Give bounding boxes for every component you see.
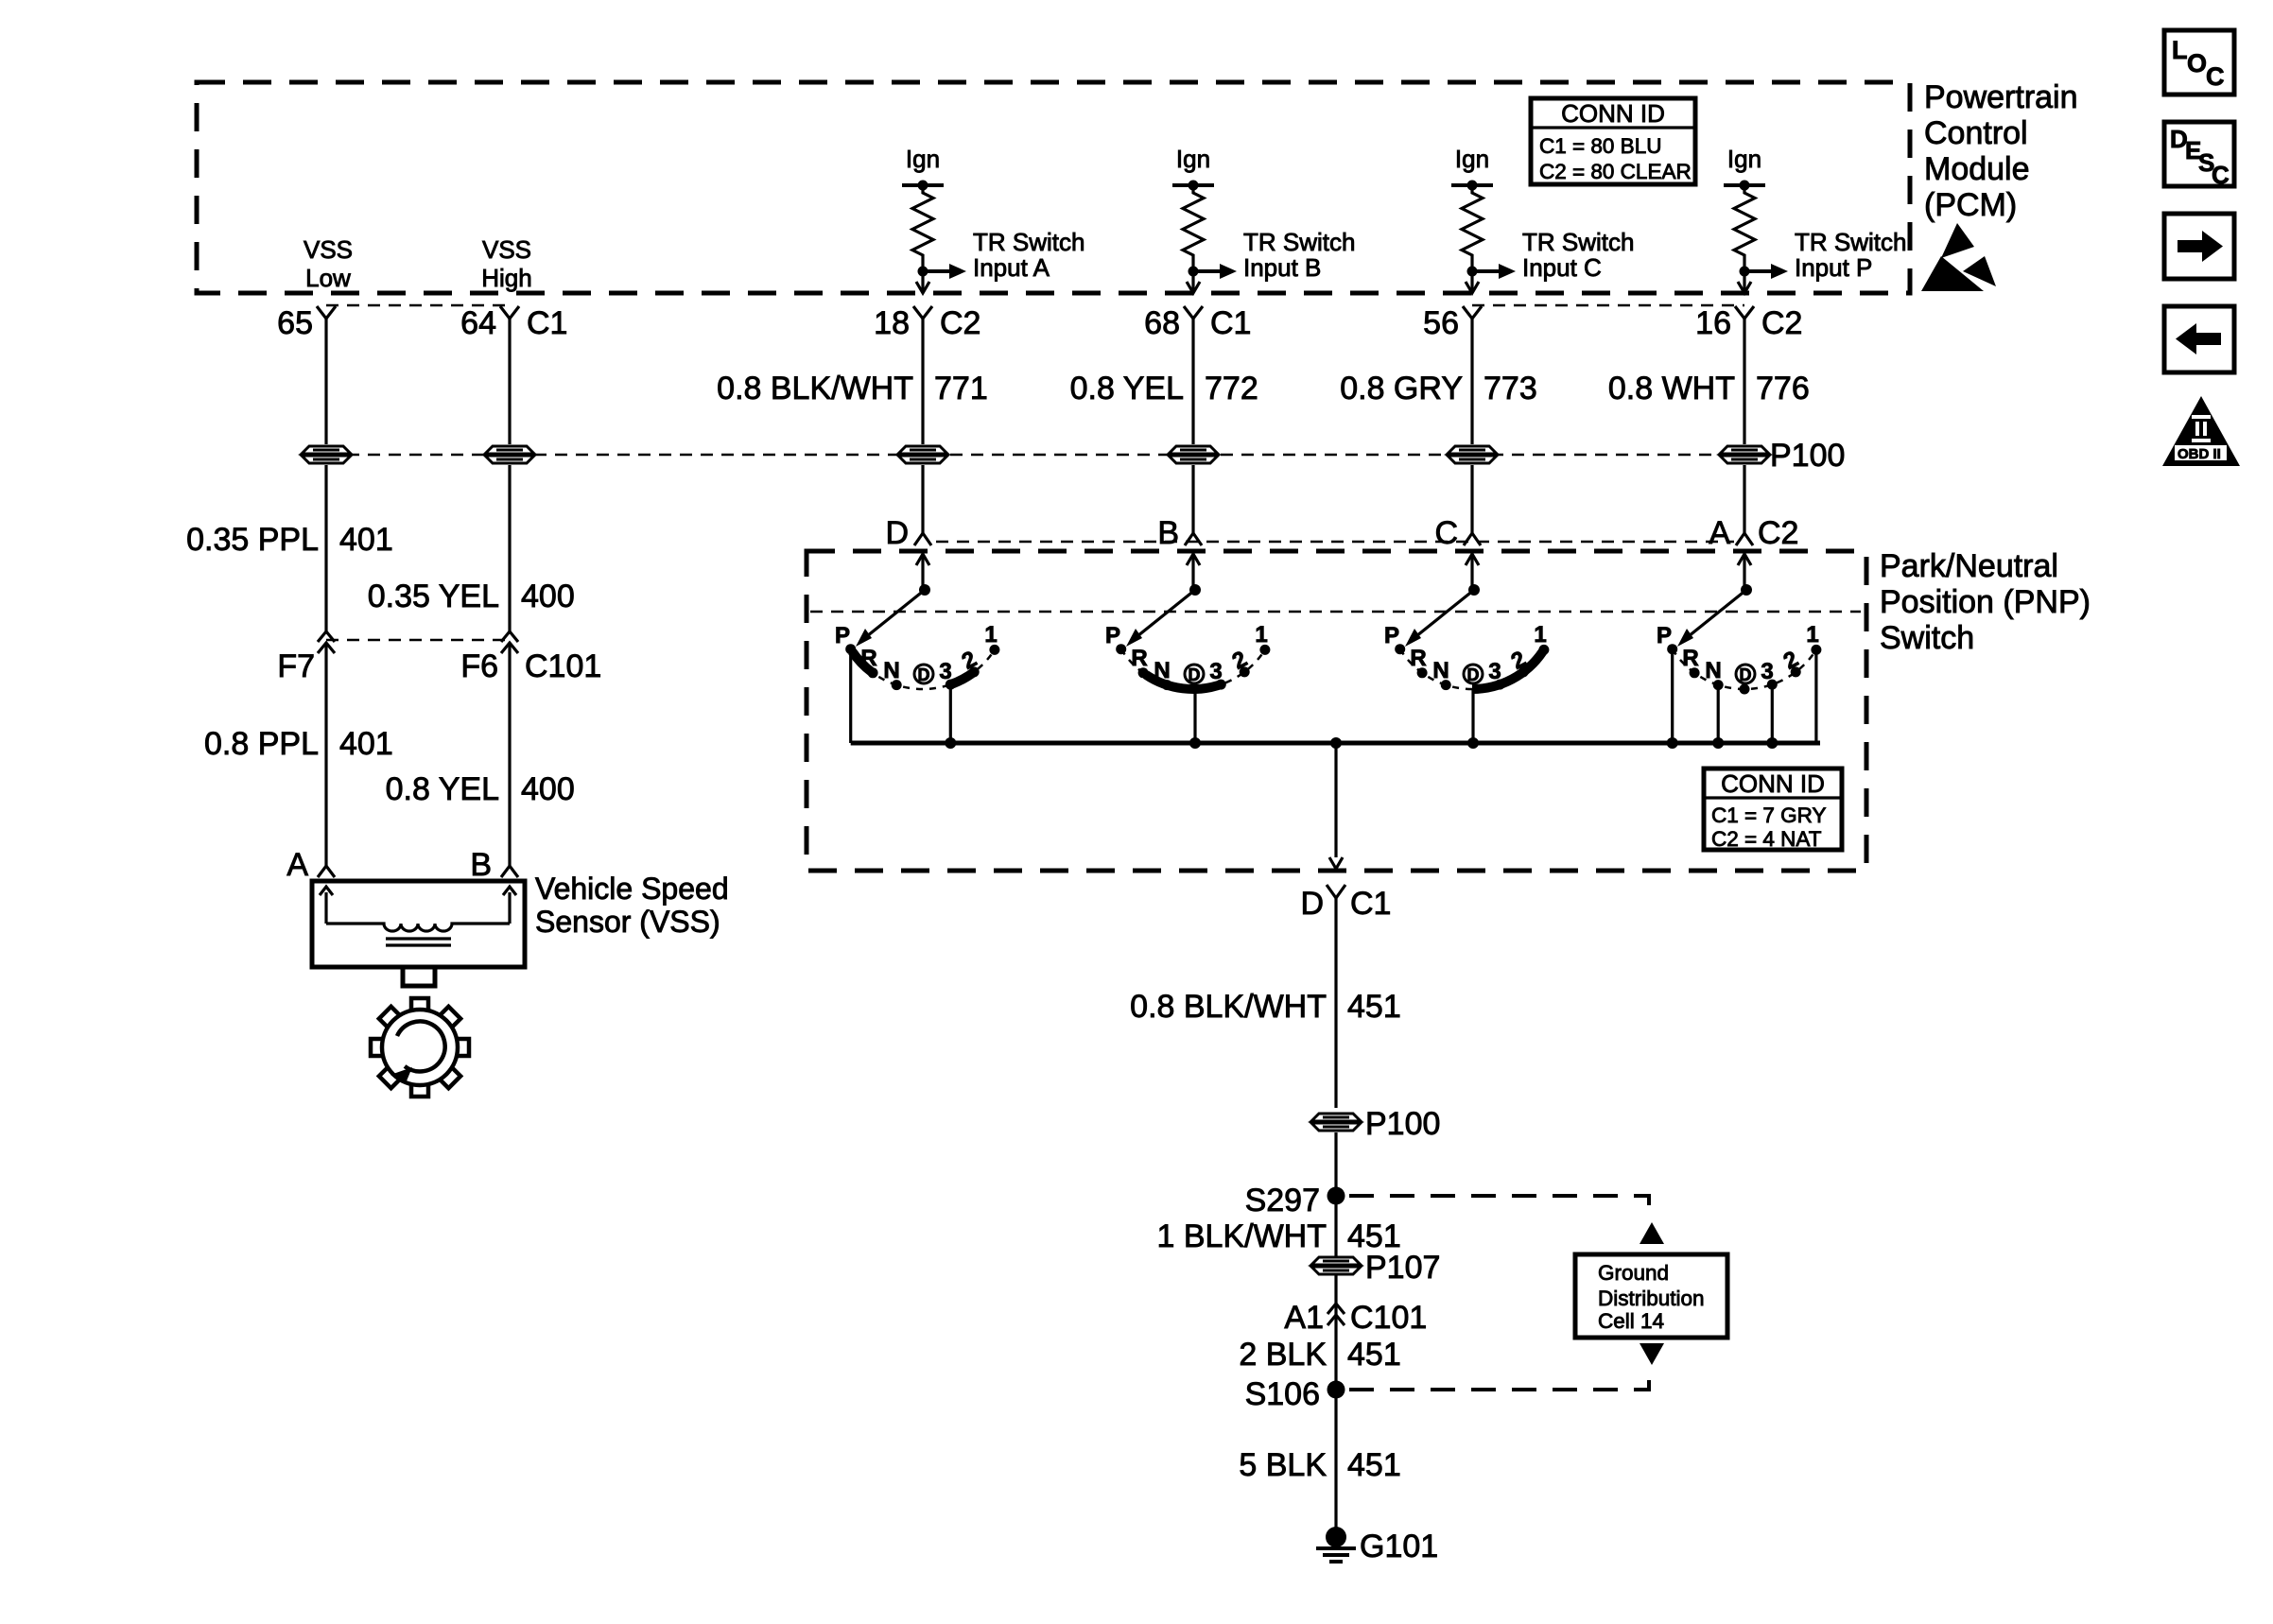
svg-text:1 BLK/WHT: 1 BLK/WHT xyxy=(1157,1218,1327,1254)
svg-text:CONN ID: CONN ID xyxy=(1561,99,1665,128)
connector P100 pass-through (lower) xyxy=(1311,1114,1361,1131)
svg-text:N: N xyxy=(1432,658,1449,683)
svg-text:3: 3 xyxy=(1761,659,1773,684)
wire label 0.8 BLK/WHT 771 xyxy=(717,371,988,406)
switch wafer SW-P position labels xyxy=(1657,622,1819,684)
svg-text:C2 = 80 CLEAR: C2 = 80 CLEAR xyxy=(1539,160,1692,183)
svg-text:F7: F7 xyxy=(277,648,315,684)
switch wafer SW-B position labels xyxy=(1105,622,1268,684)
switch SW-B closed segment R-3 xyxy=(1146,675,1223,689)
svg-text:F6: F6 xyxy=(460,648,498,684)
switch SW-C closed segment D-1 xyxy=(1472,651,1543,689)
VSS internal pickup coil xyxy=(320,887,516,945)
VSS sensor box xyxy=(312,881,525,967)
terminal A1 C101 xyxy=(1284,1300,1427,1336)
svg-text:C2 = 4 NAT: C2 = 4 NAT xyxy=(1711,827,1822,851)
svg-text:0.8 WHT: 0.8 WHT xyxy=(1608,371,1735,406)
svg-text:773: 773 xyxy=(1484,371,1537,406)
node TR Switch Input A tap xyxy=(918,228,1085,282)
svg-text:P: P xyxy=(1657,623,1672,648)
svg-text:S297: S297 xyxy=(1245,1183,1320,1218)
wire xyxy=(508,319,511,444)
wire xyxy=(1334,1132,1337,1537)
node VSS Low label xyxy=(304,235,353,292)
svg-text:C1: C1 xyxy=(1350,886,1391,922)
LOC icon xyxy=(2164,30,2234,95)
svg-text:G101: G101 xyxy=(1360,1529,1438,1564)
terminal B of VSS xyxy=(470,847,518,883)
arrow to Ground Distribution (up) xyxy=(1640,1222,1664,1244)
svg-text:772: 772 xyxy=(1205,371,1258,406)
wire SW-B to bus xyxy=(1189,689,1201,749)
wire xyxy=(1470,465,1473,533)
switch wafer SW-P wiper arm xyxy=(1677,590,1746,647)
forward arrow icon xyxy=(2164,214,2234,279)
wire label 0.35 YEL 400 xyxy=(368,579,575,614)
wire SW-P N contact to bus xyxy=(1712,685,1724,749)
svg-text:0.8 BLK/WHT: 0.8 BLK/WHT xyxy=(717,371,913,406)
switch wafer SW-A D position circle xyxy=(914,665,933,684)
wire label 0.8 PPL 401 xyxy=(204,726,393,762)
svg-text:C1: C1 xyxy=(527,305,567,341)
wire xyxy=(1191,465,1194,533)
wire xyxy=(921,319,924,444)
terminal F6 chevrons xyxy=(501,631,518,653)
wire xyxy=(324,319,327,444)
svg-text:400: 400 xyxy=(521,579,575,614)
wire VSS low upper xyxy=(324,465,327,631)
svg-text:C: C xyxy=(2206,62,2225,91)
svg-text:65: 65 xyxy=(277,305,313,341)
node Ign (column A) xyxy=(902,145,944,191)
svg-text:1: 1 xyxy=(984,622,997,648)
wire resistor to PCM edge (column A) xyxy=(916,271,929,293)
svg-text:C1 = 7 GRY: C1 = 7 GRY xyxy=(1711,803,1827,827)
connector line C2 (pins 56-16) xyxy=(1472,304,1744,307)
svg-text:B: B xyxy=(1157,515,1179,551)
connector P100 pass-through at x=1845 xyxy=(1720,446,1769,463)
svg-text:C1: C1 xyxy=(1210,305,1251,341)
switch wafer SW-B wiper arm xyxy=(1126,590,1195,647)
svg-text:Ign: Ign xyxy=(1176,145,1210,173)
terminal Y pin 65 xyxy=(277,305,336,341)
wire PNP output D xyxy=(1329,743,1343,869)
wire xyxy=(1470,319,1473,444)
node Ign (column P) xyxy=(1724,145,1765,191)
wire label 5 BLK 451 xyxy=(1239,1447,1400,1483)
svg-text:0.35 PPL: 0.35 PPL xyxy=(186,522,319,558)
svg-text:C2: C2 xyxy=(1758,515,1798,551)
connector line C2 at PNP inputs xyxy=(936,541,1734,544)
svg-text:1: 1 xyxy=(1806,622,1818,648)
svg-text:Input C: Input C xyxy=(1522,253,1602,282)
svg-text:1: 1 xyxy=(1255,622,1267,648)
CONN ID table (PCM connectors) xyxy=(1531,98,1695,184)
svg-text:C2: C2 xyxy=(1761,305,1802,341)
terminal Y pin 56 xyxy=(1423,305,1482,341)
svg-text:TR Switch: TR Switch xyxy=(973,228,1084,256)
svg-text:0.8 YEL: 0.8 YEL xyxy=(386,771,499,807)
switch wafer SW-A input arrow xyxy=(916,554,930,596)
svg-text:P107: P107 xyxy=(1365,1250,1440,1286)
terminal A of PNP switch xyxy=(1709,515,1798,551)
switch wafer SW-C contacts xyxy=(1395,644,1549,690)
node TR Switch Input C tap xyxy=(1467,228,1635,282)
svg-text:D: D xyxy=(1300,886,1324,922)
switch wafer SW-P input arrow xyxy=(1738,554,1752,596)
connector P100 pass-through at x=1557 xyxy=(1448,446,1497,463)
connector C101 dashed line xyxy=(326,639,510,642)
node VSS High label xyxy=(481,235,531,292)
svg-text:Control: Control xyxy=(1924,115,2028,151)
svg-text:N: N xyxy=(1705,658,1721,683)
svg-text:C: C xyxy=(2212,161,2230,189)
wire SW-A P contact to bus xyxy=(849,649,852,743)
PCM module box (Powertrain Control Module) xyxy=(197,82,1910,293)
svg-text:A1: A1 xyxy=(1284,1300,1324,1336)
resistor pull-up (column B) xyxy=(1183,185,1204,267)
svg-text:OBD II: OBD II xyxy=(2178,446,2221,462)
switch SW-A closed segment P-R xyxy=(852,651,871,672)
VSS label xyxy=(535,872,729,939)
dashed link S106 to Ground Distribution xyxy=(1349,1367,1649,1390)
svg-text:0.35 YEL: 0.35 YEL xyxy=(368,579,499,614)
switch wafer SW-B D position circle xyxy=(1185,665,1204,684)
svg-text:L: L xyxy=(2172,36,2188,64)
node Ign (column B) xyxy=(1172,145,1214,191)
switch wafer SW-C contact arc xyxy=(1400,649,1544,689)
splice S297 xyxy=(1245,1183,1345,1218)
switch SW-P D contact dot xyxy=(1740,684,1750,695)
svg-text:5 BLK: 5 BLK xyxy=(1239,1447,1327,1483)
svg-text:16: 16 xyxy=(1695,305,1731,341)
VSS reluctor gear xyxy=(371,998,469,1097)
svg-text:B: B xyxy=(470,847,492,883)
connector P100 dashed line xyxy=(326,454,1761,457)
node TR Switch Input B tap xyxy=(1189,228,1356,282)
wire resistor to PCM edge (column B) xyxy=(1187,271,1200,293)
svg-text:Powertrain: Powertrain xyxy=(1924,79,2078,115)
wire xyxy=(1743,319,1745,444)
svg-text:TR Switch: TR Switch xyxy=(1795,228,1906,256)
svg-text:Switch: Switch xyxy=(1880,620,1974,656)
terminal B of PNP switch xyxy=(1157,515,1202,551)
switch wafer SW-B contacts xyxy=(1116,644,1270,690)
svg-text:D: D xyxy=(918,665,930,684)
connector P107 pass-through xyxy=(1311,1257,1361,1274)
terminal F7 chevrons xyxy=(318,631,335,653)
terminal A of VSS xyxy=(286,847,335,883)
wire SW-P 1 contact to bus xyxy=(1814,649,1817,743)
VSS mounting tab xyxy=(403,967,435,986)
svg-text:D: D xyxy=(885,515,909,551)
wire xyxy=(1191,319,1194,444)
svg-text:R: R xyxy=(1131,646,1147,671)
terminal Y pin 18 xyxy=(874,305,980,341)
switch wafer SW-P contact arc xyxy=(1673,649,1816,689)
svg-text:Sensor (VSS): Sensor (VSS) xyxy=(535,905,720,939)
wire SW-P P contact to bus xyxy=(1667,649,1678,749)
svg-text:68: 68 xyxy=(1144,305,1180,341)
resistor pull-up (column C) xyxy=(1462,185,1483,267)
wire PNP common bus xyxy=(851,737,1820,749)
terminal Y pin 68 xyxy=(1144,305,1251,341)
svg-text:CONN ID: CONN ID xyxy=(1721,769,1825,798)
svg-text:O: O xyxy=(2187,49,2207,78)
svg-text:A: A xyxy=(1709,515,1730,551)
wire label 1 BLK/WHT 451 xyxy=(1157,1218,1401,1254)
wire label 2 BLK 451 xyxy=(1239,1337,1400,1373)
connector line C1 (pins 65-64) xyxy=(326,304,510,307)
svg-text:451: 451 xyxy=(1347,1447,1401,1483)
switch wafer SW-B input arrow xyxy=(1187,554,1201,596)
svg-text:776: 776 xyxy=(1756,371,1810,406)
ground G101 xyxy=(1316,1527,1438,1564)
connector P100 pass-through at x=539 xyxy=(485,446,534,463)
wire SW-A 3 contact to bus xyxy=(945,684,956,749)
wire xyxy=(921,465,924,533)
wire VSS high upper xyxy=(508,465,511,631)
wire xyxy=(1743,465,1745,533)
svg-text:VSS: VSS xyxy=(482,235,531,264)
PNP switch box (Park/Neutral Position) xyxy=(807,551,1866,871)
node TR Switch Input P tap xyxy=(1740,228,1907,282)
svg-text:771: 771 xyxy=(934,371,988,406)
svg-text:C: C xyxy=(1434,515,1458,551)
terminal Y pin 64 xyxy=(460,305,567,341)
svg-text:Low: Low xyxy=(305,264,351,292)
svg-text:18: 18 xyxy=(874,305,910,341)
svg-text:Input A: Input A xyxy=(973,253,1050,282)
svg-text:S106: S106 xyxy=(1245,1376,1320,1412)
svg-text:451: 451 xyxy=(1347,989,1401,1025)
switch SW-A closed segment 3-2 xyxy=(949,671,976,685)
wire VSS low lower xyxy=(324,643,327,866)
switch wafer SW-P contacts xyxy=(1667,644,1821,690)
node F6 C101 label xyxy=(460,648,601,684)
svg-text:P100: P100 xyxy=(1365,1106,1440,1142)
resistor pull-up (column A) xyxy=(912,185,933,267)
wire label 0.8 GRY 773 xyxy=(1340,371,1537,406)
svg-text:C2: C2 xyxy=(940,305,980,341)
wire label 0.8 WHT 776 xyxy=(1608,371,1810,406)
wire label 0.35 PPL 401 xyxy=(186,522,393,558)
back arrow icon xyxy=(2164,306,2234,372)
svg-text:Module: Module xyxy=(1924,151,2030,187)
svg-text:0.8 YEL: 0.8 YEL xyxy=(1070,371,1184,406)
svg-text:2 BLK: 2 BLK xyxy=(1239,1337,1327,1373)
wire SW-P 3 contact to bus xyxy=(1766,684,1778,749)
svg-text:R: R xyxy=(1682,646,1698,671)
terminal D of PNP switch xyxy=(885,515,931,551)
switch wafer SW-C position labels xyxy=(1384,622,1547,684)
svg-text:0.8 BLK/WHT: 0.8 BLK/WHT xyxy=(1130,989,1327,1025)
switch wafer SW-A position labels xyxy=(835,622,998,684)
DESC icon xyxy=(2164,122,2234,189)
svg-text:400: 400 xyxy=(521,771,575,807)
svg-text:Input B: Input B xyxy=(1243,253,1321,282)
svg-text:Vehicle Speed: Vehicle Speed xyxy=(535,872,729,906)
switch wafer SW-A contact arc xyxy=(851,649,995,689)
svg-text:C101: C101 xyxy=(1350,1300,1427,1336)
wire SW-C to bus xyxy=(1467,689,1479,749)
OBD II icon xyxy=(2162,396,2240,466)
svg-text:TR Switch: TR Switch xyxy=(1522,228,1634,256)
wire resistor to PCM edge (column C) xyxy=(1466,271,1479,293)
connector P100 pass-through at x=345 xyxy=(302,446,351,463)
wire resistor to PCM edge (column P) xyxy=(1738,271,1751,293)
switch wafer SW-A contacts xyxy=(845,644,999,690)
svg-text:Park/Neutral: Park/Neutral xyxy=(1880,548,2058,584)
svg-text:C101: C101 xyxy=(525,648,601,684)
CONN ID table (PNP connectors) xyxy=(1704,769,1842,851)
svg-text:401: 401 xyxy=(339,726,393,762)
wire label 0.8 BLK/WHT 451 xyxy=(1130,989,1401,1025)
wire VSS high lower xyxy=(508,643,511,866)
arrow from Ground Distribution (down) xyxy=(1640,1343,1664,1365)
svg-text:VSS: VSS xyxy=(304,235,353,264)
PNP internal dashed link line xyxy=(810,611,1861,613)
svg-text:P: P xyxy=(1105,623,1120,648)
svg-text:(PCM): (PCM) xyxy=(1924,187,2017,223)
Ground Distribution callout box xyxy=(1575,1254,1727,1338)
svg-text:High: High xyxy=(481,264,531,292)
svg-text:Ign: Ign xyxy=(906,145,940,173)
svg-text:A: A xyxy=(286,847,308,883)
svg-text:Distribution: Distribution xyxy=(1598,1287,1705,1310)
switch wafer SW-P D position circle xyxy=(1736,665,1755,684)
switch wafer SW-C D position circle xyxy=(1464,665,1483,684)
svg-text:Ign: Ign xyxy=(1727,145,1761,173)
svg-text:D: D xyxy=(1740,665,1752,684)
svg-text:D: D xyxy=(1467,665,1480,684)
switch wafer SW-C input arrow xyxy=(1466,554,1480,596)
svg-text:Ign: Ign xyxy=(1455,145,1489,173)
svg-text:0.8 GRY: 0.8 GRY xyxy=(1340,371,1463,406)
ESD sensitivity symbol xyxy=(1921,223,1996,291)
svg-text:64: 64 xyxy=(460,305,496,341)
svg-text:P100: P100 xyxy=(1770,438,1845,474)
svg-text:0.8 PPL: 0.8 PPL xyxy=(204,726,319,762)
svg-text:N: N xyxy=(883,658,899,683)
svg-text:R: R xyxy=(1410,646,1426,671)
svg-text:Input P: Input P xyxy=(1795,253,1872,282)
svg-text:56: 56 xyxy=(1423,305,1459,341)
connector P100 pass-through at x=1262 xyxy=(1169,446,1218,463)
wire label 0.8 YEL 400 xyxy=(386,771,575,807)
svg-text:C1 = 80 BLU: C1 = 80 BLU xyxy=(1539,134,1661,158)
terminal D C1 of PNP output xyxy=(1300,885,1391,922)
terminal Y pin 16 xyxy=(1695,305,1802,341)
svg-text:451: 451 xyxy=(1347,1337,1401,1373)
splice S106 xyxy=(1245,1376,1345,1412)
svg-text:1: 1 xyxy=(1534,622,1546,648)
switch wafer SW-A wiper arm xyxy=(856,590,925,647)
svg-text:D: D xyxy=(1189,665,1201,684)
svg-text:401: 401 xyxy=(339,522,393,558)
PCM label xyxy=(1924,79,2078,223)
PNP label xyxy=(1880,548,2091,656)
svg-text:Ground: Ground xyxy=(1598,1261,1669,1285)
switch wafer SW-C wiper arm xyxy=(1405,590,1474,647)
terminal C of PNP switch xyxy=(1434,515,1481,551)
svg-text:P: P xyxy=(1384,623,1399,648)
svg-text:Cell 14: Cell 14 xyxy=(1598,1309,1664,1333)
resistor pull-up (column P) xyxy=(1734,185,1755,267)
wire label 0.8 YEL 772 xyxy=(1070,371,1258,406)
switch wafer SW-B contact arc xyxy=(1121,649,1265,689)
node Ign (column C) xyxy=(1451,145,1493,191)
svg-text:TR Switch: TR Switch xyxy=(1243,228,1355,256)
connector P100 pass-through at x=976 xyxy=(898,446,947,463)
dashed link S297 to Ground Distribution xyxy=(1349,1196,1649,1220)
svg-text:Position (PNP): Position (PNP) xyxy=(1880,584,2091,620)
svg-text:P: P xyxy=(835,623,850,648)
wire 451 upper xyxy=(1334,898,1337,1108)
